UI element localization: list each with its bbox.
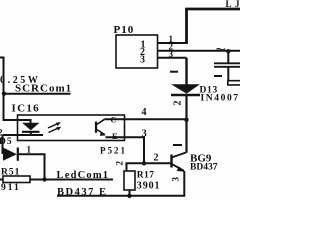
wire left rail from top stub [0, 58, 31, 124]
junction dot R17 bottom [127, 194, 131, 198]
junction dot SCRCom1 [2, 92, 6, 96]
transistor BG9 emitter lead [172, 164, 185, 171]
svg-text:1: 1 [27, 144, 32, 154]
capacitor C1 plate bottom [214, 66, 240, 68]
phototransistor emitter lead [96, 129, 105, 135]
svg-text:LJ: LJ [226, 0, 241, 9]
pin 2 inside P10 [140, 47, 145, 58]
wire D5 cathode right [18, 154, 45, 179]
svg-text:R17: R17 [137, 171, 155, 181]
wire BG9 emitter down to rail [57, 171, 184, 196]
pin number 4 label [142, 107, 147, 118]
transistor BG9 emitter arrowhead [177, 166, 186, 172]
resistor R17 body [124, 171, 135, 190]
svg-text:E: E [112, 131, 118, 141]
svg-text:BD437: BD437 [190, 162, 218, 172]
junction dot at cap top [226, 49, 230, 53]
svg-text:2: 2 [154, 152, 159, 163]
wire D13 down to node [185, 95, 187, 153]
pin 1 inside P10 [141, 39, 146, 50]
wire cap top stub [227, 51, 229, 63]
diode D13 value IN4007 [201, 93, 240, 103]
svg-text:911: 911 [1, 183, 21, 193]
transistor BG9 base bar [170, 155, 172, 168]
svg-text:2: 2 [114, 161, 124, 166]
resistor R51 value 911 [1, 183, 21, 193]
svg-text:2: 2 [173, 101, 184, 106]
component stub bracket at right edge [228, 81, 240, 85]
diode D5 cathode bar [17, 148, 19, 161]
transistor BG9 collector lead [172, 153, 187, 158]
svg-text:LedCom1: LedCom1 [57, 170, 110, 181]
node LJ label [226, 0, 244, 9]
optocoupler LED cathode bar [22, 131, 40, 133]
svg-text:P10: P10 [114, 24, 135, 36]
light arrow 1 [48, 123, 59, 128]
svg-text:D5: D5 [0, 137, 13, 147]
pin 2 rotated label near base [114, 161, 124, 166]
junction dot base node [142, 161, 146, 165]
junction dot collector node [184, 118, 188, 122]
optocoupler P521 label [100, 146, 127, 156]
diode D13 cathode bar [171, 94, 200, 96]
diode D5 label [0, 137, 13, 147]
phototransistor collector lead [96, 119, 105, 125]
connector P10 label [114, 24, 135, 36]
diode D13 triangle [171, 84, 200, 93]
phototransistor emitter arrowhead [100, 132, 106, 136]
wire R51 left [0, 179, 3, 181]
capacitor pin1 dash mark [214, 75, 222, 77]
wire LJ net top [187, 9, 241, 44]
wire cap bottom stub [227, 67, 229, 81]
wire 4 from optocoupler collector to node [105, 118, 187, 120]
optocoupler LED triangle [22, 123, 40, 131]
svg-text:4: 4 [142, 107, 147, 118]
resistor R51 body [3, 176, 30, 183]
svg-text:BD437 E: BD437 E [57, 187, 107, 198]
optocoupler LED cathode stub [30, 132, 32, 135]
pin number 1 label D5 [27, 144, 32, 154]
wire P10 pin3 [158, 57, 187, 59]
svg-text:3: 3 [142, 129, 147, 140]
pin number 1 label [169, 34, 174, 44]
capacitor C1 plate top [214, 62, 240, 64]
diode D13 pin1 dash mark [170, 71, 178, 73]
wire pin3 down to D13 [185, 58, 187, 85]
pin number 2 label [169, 42, 174, 52]
wire P10 pin1 [158, 42, 188, 44]
resistor R17 value 3901 [137, 180, 161, 191]
pin 2 rotated label of D13 [173, 101, 184, 106]
svg-text:IN4007: IN4007 [201, 93, 240, 103]
svg-text:IC16: IC16 [12, 102, 40, 114]
wire P10 pin2 [158, 50, 240, 52]
pin 3 inside P10 [140, 54, 145, 65]
svg-text:3901: 3901 [137, 180, 161, 191]
svg-text:3: 3 [170, 177, 180, 182]
wire LedCom1 net [45, 179, 114, 181]
svg-text:P521: P521 [100, 146, 127, 156]
resistor R51 label [1, 168, 20, 178]
net LedCom1 label [57, 170, 110, 181]
wire LED cathode out left [3, 134, 44, 136]
pin 3 rotated label near emitter [170, 177, 180, 182]
wire LED cathode down to D5 [2, 135, 4, 154]
wire R51 right to junction [30, 179, 45, 181]
transistor BG9 label [190, 152, 212, 164]
wire SCRCom1 [3, 93, 71, 95]
resistor R17 label [137, 171, 155, 181]
svg-text:3: 3 [140, 54, 145, 65]
wire emitter out of box [106, 137, 145, 163]
transistor BG9 type BD437 [190, 162, 218, 172]
BG9 pin1 dash mark [173, 144, 182, 146]
svg-text:C: C [111, 116, 117, 125]
svg-text:3: 3 [169, 49, 174, 59]
net 0.25W label [0, 75, 41, 86]
pin number 2 label at base [154, 152, 159, 163]
net SCRCom1 label [15, 83, 72, 95]
optocoupler IC16 label [12, 102, 40, 114]
label C collector [111, 116, 117, 125]
phototransistor base bar [95, 122, 97, 133]
pin number 3 label [169, 49, 174, 59]
pin 2 label at left edge [0, 128, 3, 138]
junction dot LedCom1 [42, 177, 46, 181]
diode D13 label [200, 86, 218, 96]
optocoupler IC16 box [18, 115, 125, 141]
label E emitter [112, 131, 118, 141]
connector P10 [116, 35, 158, 68]
pin number 3 label [142, 129, 147, 140]
diode D5 triangle [3, 148, 17, 161]
light arrow 2 [49, 128, 60, 133]
wire base net [127, 163, 171, 171]
net BD437 E label [57, 187, 107, 198]
capacitor pin2 squiggle mark [217, 49, 226, 50]
wire R17 bottom stub [129, 190, 131, 196]
